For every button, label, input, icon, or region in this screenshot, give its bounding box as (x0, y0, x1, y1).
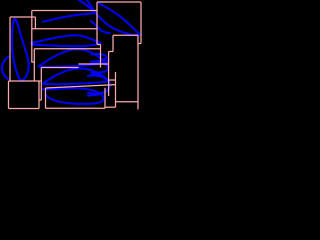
blue strokes (pink box edges drawn on top) (2, 0, 140, 104)
box R2 top edge (32, 10, 97, 12)
box R4 top edge (34, 48, 100, 50)
vertical v14 (40, 68, 42, 101)
bar y100 (39, 99, 41, 101)
stroke S3 top long line (43, 13, 93, 21)
stroke P2 hairpin below W1 (92, 63, 109, 75)
box W right edge (104, 88, 106, 109)
box E left edge (8, 81, 10, 109)
vertical v_c (115, 72, 117, 107)
box D top edge y101.7 (116, 101, 139, 103)
stroke L_b long diagonal from top (79, 0, 139, 35)
step h9 (109, 51, 113, 53)
box R3 top edge (32, 28, 97, 30)
box A left edge (96, 2, 98, 45)
box R2 bottom fragment (31, 61, 34, 63)
box B2 top edge (113, 34, 138, 36)
box W top edge slanting line (46, 85, 116, 88)
stroke W2 whale lower band (43, 68, 109, 84)
box E bottom edge (9, 108, 40, 110)
box E top edge y81 (9, 80, 41, 82)
stroke S1 big left loop (12, 19, 29, 81)
box R4 left edge (33, 49, 35, 81)
box W bottom edge (46, 107, 106, 109)
stroke S7 fish shape middle (31, 35, 101, 46)
box R2 left edge (31, 11, 33, 63)
rung y80 (109, 79, 116, 81)
pink box edges (9, 2, 142, 110)
ledge y107.2 (105, 106, 116, 108)
box W left edge (45, 88, 47, 108)
box R4 right edge (100, 45, 102, 68)
box E right edge (38, 81, 40, 109)
box A bottom-left piece (97, 44, 101, 46)
stroke S5 short branch at top (87, 0, 93, 9)
stroke W1 whale middle band (39, 49, 106, 66)
box B2 left edge upper (112, 35, 114, 51)
box A right edge (140, 2, 142, 44)
box A bottom-right notch (138, 43, 141, 45)
box R1 right edge upper (34, 17, 36, 29)
horizontal y64 (79, 63, 109, 65)
stroke S2 far-left C arc (2, 57, 9, 80)
vertical v10 (108, 52, 110, 97)
box B2 right edge (137, 35, 139, 109)
stroke L_c lower short diagonal (91, 21, 110, 33)
box R1 top edge (10, 16, 35, 18)
box A top edge (97, 1, 141, 3)
stroke W3 whale bottom box (open mouth left) (43, 88, 104, 104)
stroke W1 crest curl (91, 54, 108, 62)
horizontal y67.5 (41, 67, 78, 69)
stroke L_a diagonal in top-right box (99, 4, 140, 36)
box R1 left edge (9, 17, 11, 81)
stroke P3 big hairpin lower cluster (88, 76, 110, 96)
